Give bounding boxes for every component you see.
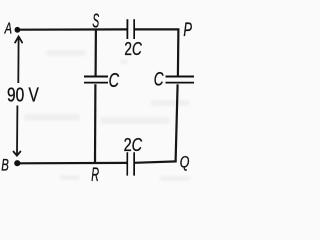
svg-text:S: S	[92, 11, 99, 33]
voltage dimension arrow lower half (points down at B)	[13, 106, 21, 156]
wire right vertical bottom plate of right C to Q corner	[176, 84, 178, 161]
capacitor C (right, between P and Q)	[166, 76, 195, 83]
svg-text:R: R	[91, 165, 99, 186]
voltage dimension arrow upper half (points up at A)	[15, 37, 23, 84]
capacitor 2C (top, between S and P)	[127, 19, 134, 39]
capacitor C (middle, between S and R)	[84, 76, 108, 83]
svg-text:P: P	[183, 20, 192, 41]
wire top A to S to left plate of 2C	[17, 28, 127, 31]
wire right vertical P to top plate of right C	[177, 29, 180, 76]
node B terminal dot	[14, 160, 20, 166]
svg-text:90 V: 90 V	[7, 84, 39, 106]
wire bottom B to R to left plate of bottom 2C	[17, 162, 127, 165]
svg-text:2C: 2C	[124, 135, 143, 155]
faint scan bleed-through artifacts	[24, 50, 190, 181]
svg-text:2C: 2C	[124, 39, 142, 59]
wire middle vertical bottom plate of middle C to R	[94, 84, 97, 163]
svg-text:A: A	[4, 21, 12, 38]
wire middle vertical S to top plate of middle C	[94, 30, 97, 76]
svg-text:B: B	[1, 155, 9, 174]
svg-text:C: C	[154, 70, 164, 91]
wire top right plate of 2C to P corner	[134, 28, 179, 30]
capacitor 2C (bottom, between R and Q)	[127, 152, 134, 175]
svg-text:C: C	[109, 70, 120, 92]
svg-text:Q: Q	[180, 152, 190, 171]
wire bottom right plate of bottom 2C to Q corner	[134, 161, 176, 162]
node A terminal dot	[15, 27, 21, 33]
